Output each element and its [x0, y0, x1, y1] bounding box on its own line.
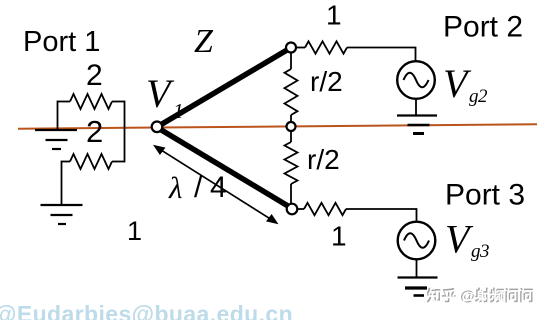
source Vg2 circle	[397, 61, 435, 99]
wire: lead to port-3 node	[290, 184, 292, 204]
svg-text:2: 2	[478, 86, 488, 107]
resistor 1 (port 2 load)	[305, 41, 347, 53]
wire: vertical stub to ground (lower)	[61, 161, 63, 205]
wire: from resistor to source Vg2	[347, 48, 416, 61]
wire: lead from middle node down	[290, 131, 292, 142]
wire: right lead of upper resistor	[112, 101, 125, 103]
svg-text:2: 2	[86, 59, 103, 92]
svg-text:λ: λ	[168, 170, 182, 205]
ground (under Vg3)	[398, 278, 438, 296]
wire: right lead of lower resistor	[112, 161, 125, 163]
svg-text:2: 2	[86, 114, 103, 149]
svg-text:/: /	[194, 171, 203, 204]
svg-text:Port 2: Port 2	[443, 11, 523, 44]
sine symbol inside Vg2	[404, 73, 429, 88]
wire: vertical stub to ground (upper)	[57, 101, 59, 130]
wire: left lead of upper port-1 resistor	[58, 101, 71, 103]
ground (port 1 lower)	[41, 205, 83, 224]
node circle at port 3 end of line	[287, 204, 298, 215]
wire: orange annotation line across page	[18, 124, 537, 128]
wire: lead from node to port-2 resistor	[296, 47, 305, 49]
wire: thick quarter-wave line to port 2	[162, 50, 287, 124]
watermark zhihu (bottom right)	[427, 287, 536, 306]
ground (under Vg2)	[397, 116, 437, 134]
resistor 2 (lower, port 1 termination)	[70, 154, 112, 169]
svg-text:3: 3	[479, 241, 490, 262]
svg-text:1: 1	[127, 216, 142, 246]
node circle at port 2 end of line	[286, 43, 296, 53]
wire: lead from node to port-3 resistor	[298, 208, 305, 210]
resistor r/2 (lower)	[285, 142, 298, 184]
node V1 junction circle	[152, 122, 163, 133]
ground (port 1 upper)	[35, 130, 77, 149]
wire: Vg2 to ground	[415, 99, 417, 116]
wire: thick quarter-wave line to port 3	[161, 130, 289, 207]
sine symbol inside Vg3	[404, 233, 429, 248]
svg-text:r/2: r/2	[307, 144, 340, 175]
svg-text:Port 3: Port 3	[445, 179, 525, 212]
resistor 1 (port 3 load)	[304, 203, 346, 215]
resistor r/2 (upper)	[285, 69, 298, 115]
svg-text:Port 1: Port 1	[23, 26, 100, 58]
svg-text:r/2: r/2	[310, 66, 343, 97]
wire: lead from port-2 node down to r/2 resistor	[290, 53, 292, 70]
wire: from resistor to source Vg3	[346, 209, 417, 222]
svg-text:@Eudarbies@buaa.edu.cn: @Eudarbies@buaa.edu.cn	[0, 301, 293, 320]
svg-text:知乎 @射频问问: 知乎 @射频问问	[428, 288, 535, 306]
dimension arrow lambda/4 (double headed)	[153, 145, 279, 224]
wire: Vg3 to ground	[416, 260, 418, 278]
wire: left lead of lower resistor	[62, 161, 71, 163]
svg-text:4: 4	[210, 171, 227, 204]
wire: right vertical joining both port-1 resistors	[124, 101, 126, 163]
svg-text:1: 1	[326, 0, 342, 31]
node circle (middle of r resistor)	[287, 122, 296, 131]
wire: lead to middle node	[290, 115, 292, 123]
resistor 2 (upper, port 1 termination)	[70, 94, 112, 109]
svg-text:Z: Z	[194, 23, 214, 60]
source Vg3 circle	[398, 222, 436, 260]
svg-text:1: 1	[331, 221, 347, 252]
